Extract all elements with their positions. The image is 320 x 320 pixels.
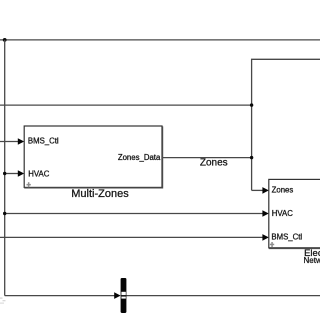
svg-text:HVAC: HVAC <box>28 169 49 178</box>
wire HVAC bottom into bus creator <box>5 295 115 297</box>
svg-text:HVAC: HVAC <box>272 209 293 218</box>
wire bus creator output to right edge <box>126 295 320 297</box>
svg-text:Zones: Zones <box>272 186 294 195</box>
wire HVAC top horizontal <box>0 39 320 41</box>
node HVAC branch at y213 <box>3 212 6 215</box>
badge variant Electrical <box>270 242 274 247</box>
shadow right+bottom <box>24 126 162 187</box>
badge variant Multi-Zones <box>27 182 31 187</box>
svg-text:Multi-Zones: Multi-Zones <box>71 188 129 200</box>
wire BMS_Ctl into Electrical block <box>0 236 263 238</box>
wire Zones branch to left edge <box>0 104 252 106</box>
wire Zones into Electrical block <box>252 189 263 191</box>
svg-text:Zones_Data: Zones_Data <box>118 153 161 162</box>
node HVAC branch at y173 <box>3 172 6 175</box>
node Zones branch at x251 y105 <box>250 103 253 106</box>
wire Zones_Data output of Multi-Zones <box>162 157 252 159</box>
svg-text:Network: Network <box>304 256 320 265</box>
subsystem Electrical <box>269 179 320 248</box>
node HVAC branch top-left <box>3 38 7 42</box>
svg-text:BMS_Ctl: BMS_Ctl <box>28 136 59 145</box>
wire BMS_Ctl into Multi-Zones <box>0 141 19 143</box>
shadow bottom <box>269 248 320 250</box>
node Zones branch at x251 y157 <box>250 156 253 159</box>
wire HVAC into Electrical block <box>5 213 263 215</box>
subsystem Multi-Zones <box>24 126 162 188</box>
wire HVAC left vertical trunk <box>4 40 6 296</box>
svg-text:BMS_Ctl: BMS_Ctl <box>271 233 302 242</box>
svg-text:Zones: Zones <box>200 157 228 168</box>
wire HVAC into Multi-Zones <box>5 173 19 175</box>
wire Zones to top-right <box>252 59 320 190</box>
bus creator <box>121 278 127 313</box>
annotation fragment bottom-left <box>0 298 6 304</box>
